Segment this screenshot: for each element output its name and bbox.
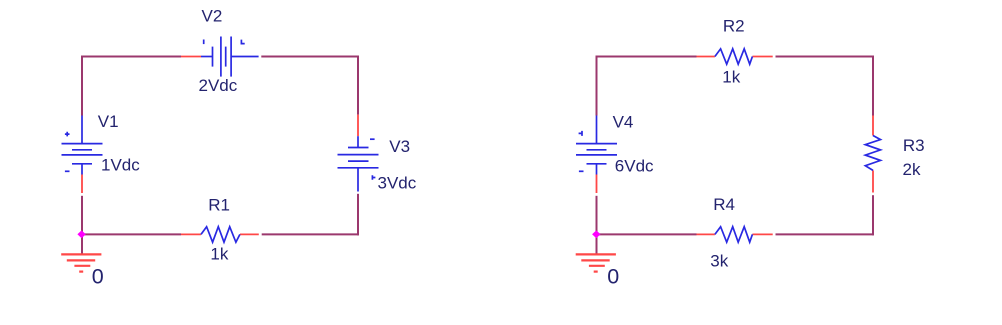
svg-text:0: 0	[92, 264, 104, 288]
svg-text:R1: R1	[208, 195, 230, 214]
svg-text:3k: 3k	[710, 251, 728, 270]
svg-text:1k: 1k	[722, 68, 740, 87]
svg-text:V3: V3	[389, 137, 410, 156]
svg-text:0: 0	[607, 265, 619, 289]
svg-text:R2: R2	[723, 17, 745, 36]
svg-text:R4: R4	[713, 195, 735, 214]
svg-text:3Vdc: 3Vdc	[378, 173, 417, 192]
svg-text:1k: 1k	[210, 245, 228, 264]
svg-text:2k: 2k	[903, 160, 921, 179]
svg-text:R3: R3	[903, 136, 925, 155]
svg-text:V2: V2	[202, 7, 223, 26]
svg-text:6Vdc: 6Vdc	[615, 156, 654, 175]
svg-text:2Vdc: 2Vdc	[199, 76, 238, 95]
svg-text:V1: V1	[98, 112, 119, 131]
svg-text:1Vdc: 1Vdc	[101, 155, 140, 174]
svg-text:V4: V4	[613, 112, 634, 131]
